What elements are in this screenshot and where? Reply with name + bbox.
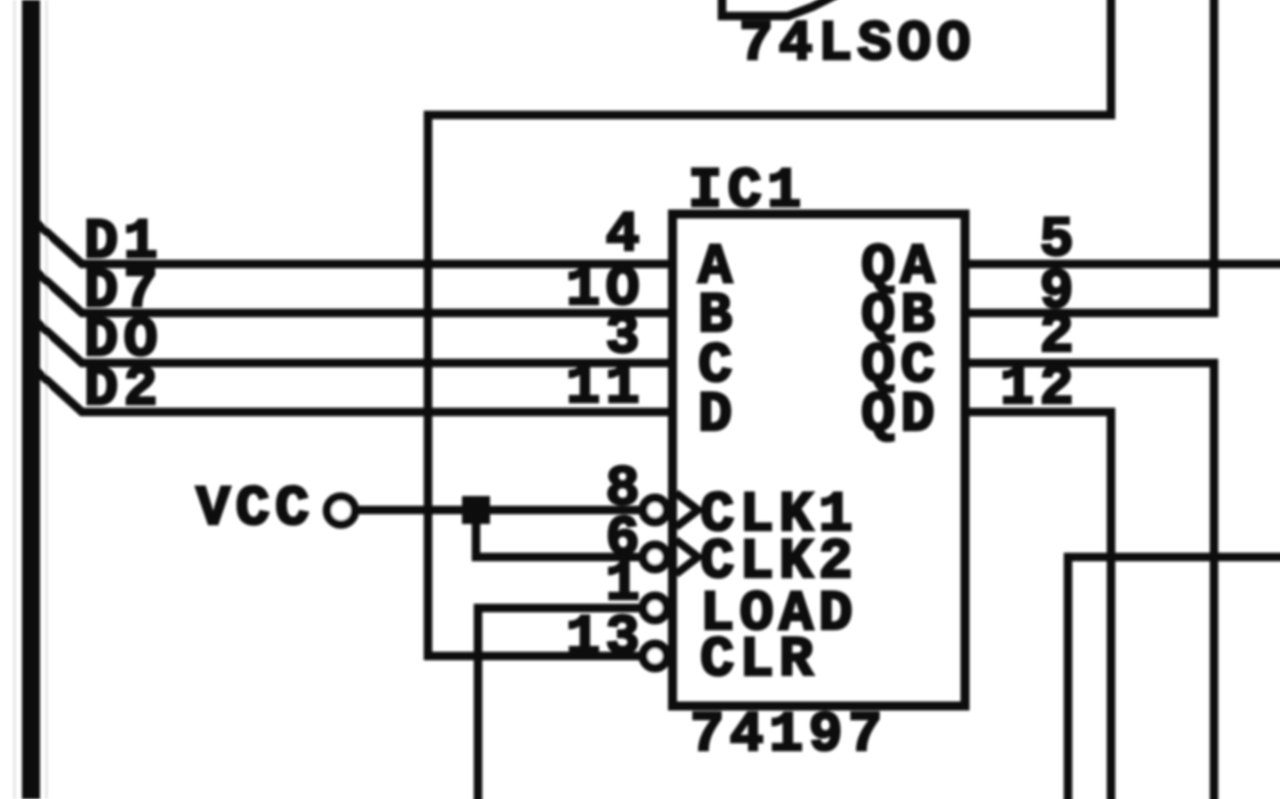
LOAD inversion bubble pin 1 bbox=[643, 596, 667, 620]
faint scan artifact line right of bus bbox=[45, 0, 48, 799]
wire QA to right edge bbox=[965, 260, 1280, 269]
CLK2 clock wedge bbox=[676, 540, 698, 574]
svg-text:QD: QD bbox=[861, 384, 940, 448]
junction dot bbox=[462, 496, 490, 524]
CLK1 inversion bubble pin 8 bbox=[643, 498, 667, 522]
CLK2 inversion bubble pin 6 bbox=[643, 545, 667, 569]
gate U2 74LS00 (partial outline at top edge) bbox=[722, 0, 834, 16]
svg-text:12: 12 bbox=[1000, 357, 1079, 421]
wire D2: bus stub + horizontal to IC pin D bbox=[40, 374, 672, 412]
svg-text:D: D bbox=[698, 384, 738, 448]
wire D7: bus stub + horizontal to IC pin B bbox=[40, 275, 672, 313]
VCC terminal circle bbox=[327, 497, 355, 525]
svg-text:VCC: VCC bbox=[196, 478, 315, 542]
svg-text:74LSOO: 74LSOO bbox=[739, 13, 976, 77]
IC1 74197 body bbox=[673, 214, 966, 706]
data bus (thick vertical) bbox=[22, 0, 40, 799]
wire at bottom right: from right edge left then down bbox=[1068, 557, 1280, 799]
svg-text:13: 13 bbox=[566, 607, 645, 671]
faint scan artifact line left of bus bbox=[13, 0, 16, 799]
svg-text:IC1: IC1 bbox=[688, 160, 807, 224]
wire QD right then down to bottom edge bbox=[965, 412, 1111, 799]
CLR inversion bubble pin 13 bbox=[643, 644, 667, 668]
svg-text:74197: 74197 bbox=[690, 704, 888, 768]
wire D0: bus stub + horizontal to IC pin C bbox=[40, 325, 672, 363]
wire QB right then up to top edge bbox=[965, 0, 1214, 313]
CLK1 clock wedge bbox=[676, 493, 698, 527]
wire from 74LS00 output down and across to CLR bbox=[428, 0, 1111, 656]
wire VCC to CLK1 bbox=[355, 506, 648, 515]
wire QC right then down to bottom edge bbox=[965, 363, 1214, 799]
wire D1: bus stub + horizontal to IC pin A bbox=[40, 226, 672, 264]
svg-text:D2: D2 bbox=[84, 358, 163, 422]
wire branch junction to CLK2 bbox=[476, 510, 648, 557]
svg-text:CLR: CLR bbox=[700, 629, 819, 693]
wire LOAD down to bottom edge bbox=[478, 608, 648, 799]
svg-text:11: 11 bbox=[566, 356, 645, 420]
